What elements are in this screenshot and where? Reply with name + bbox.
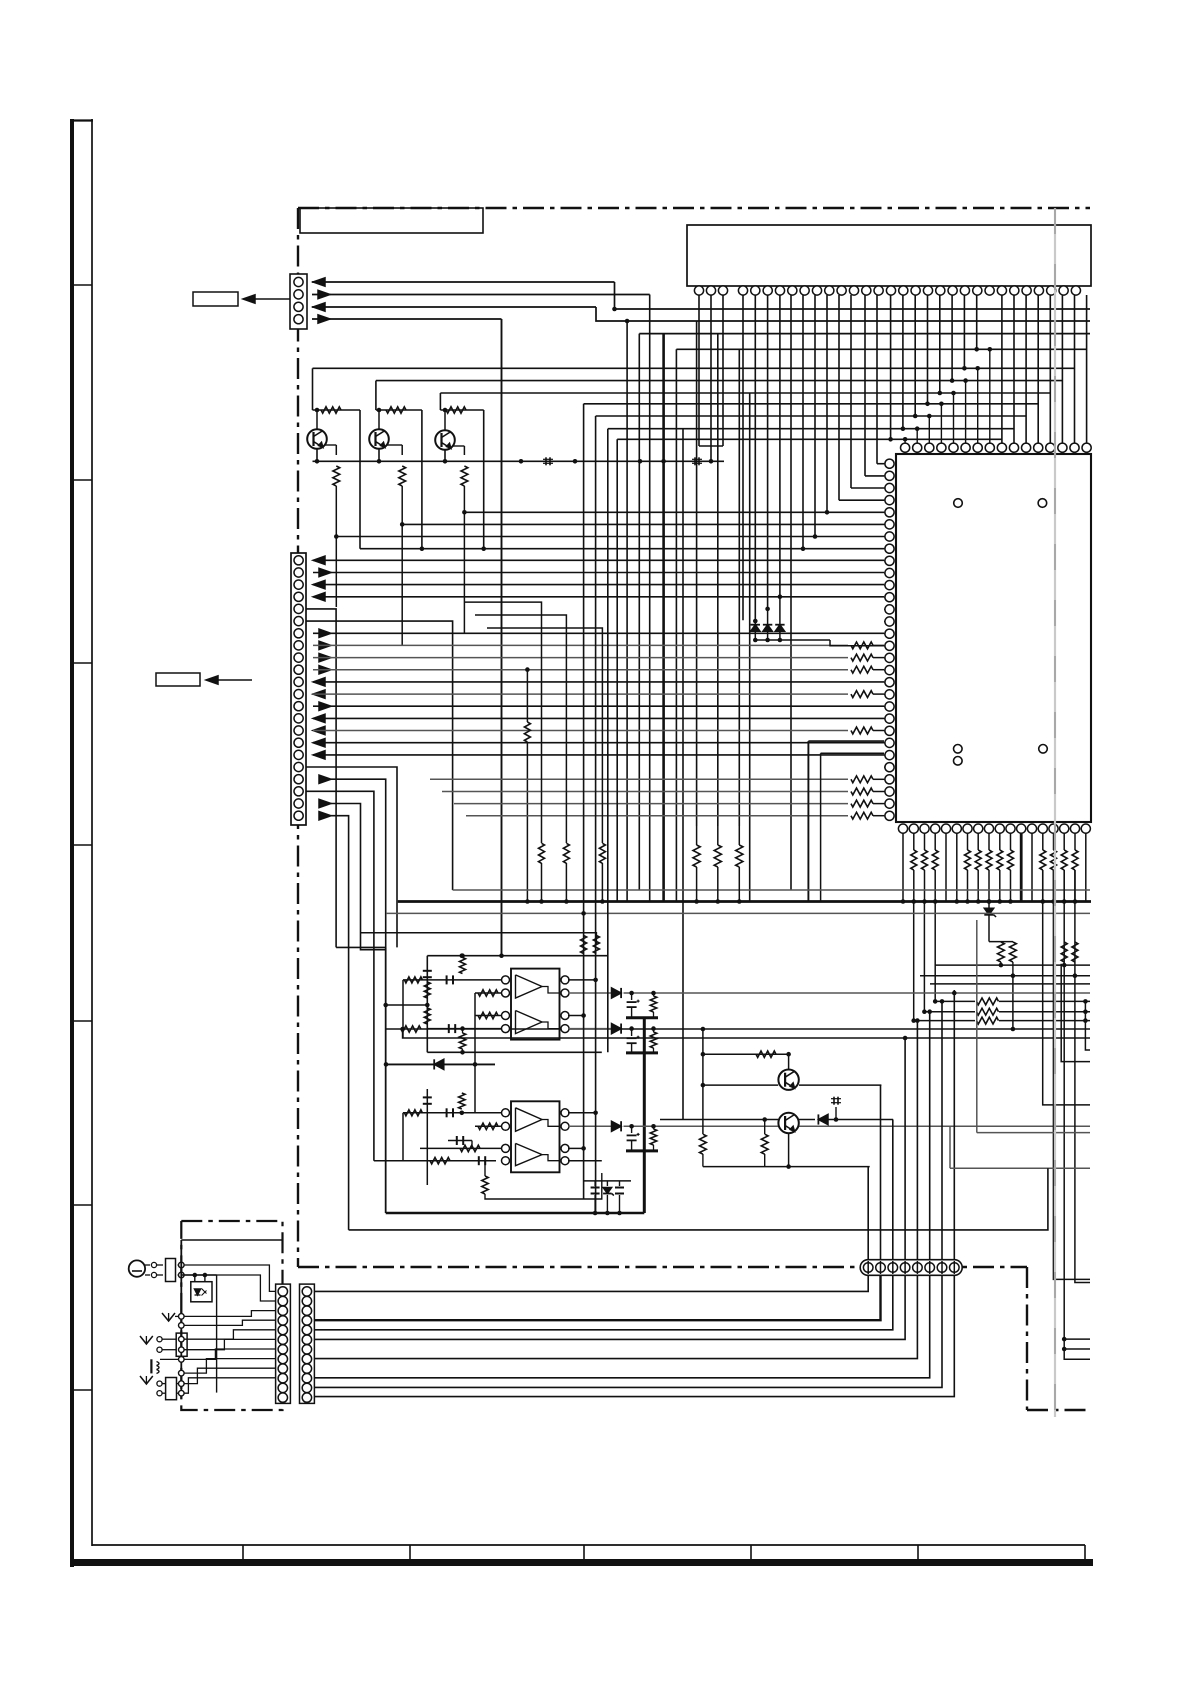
U3 input network wires — [403, 1112, 502, 1114]
resistor R31 — [1010, 942, 1017, 962]
wire vertical x1042 — [1043, 870, 1090, 1105]
IC bottom pin wires and resistors — [902, 833, 904, 902]
signal wire y932 — [361, 933, 597, 945]
label box B — [156, 673, 200, 686]
input unit outline dash-dot — [181, 1221, 282, 1410]
wire drop x483 — [483, 410, 485, 549]
microphone jack — [129, 1260, 145, 1276]
label box A — [193, 292, 238, 306]
gray signal wire y1168 — [950, 1167, 1090, 1169]
long wire vertical x663 (heavy) — [662, 334, 665, 902]
pin continuation wires below bus — [913, 902, 915, 1021]
op-amp U3 body — [511, 1101, 560, 1172]
wire CN1-1 — [312, 281, 615, 283]
op-amp U2 amp A triangle — [516, 975, 543, 998]
wire drop x360 — [359, 410, 361, 549]
arrow to label box B — [208, 679, 252, 681]
connector CN3 row wires — [313, 556, 325, 564]
wire rail y1160 left — [374, 1160, 400, 1162]
wire ladder row y321 — [596, 307, 1090, 321]
IC U1 left pins — [885, 459, 894, 468]
frame grid tick marks left — [74, 284, 92, 286]
heavy gnd segment — [626, 1016, 658, 1019]
IC U1 index holes — [954, 499, 963, 508]
nested corner wires to IC left pins (top) — [839, 499, 884, 501]
wire with resistor to IC pin row — [313, 644, 848, 646]
long wire vertical x501 — [501, 319, 503, 956]
wire ladder rows y349-y439 — [676, 348, 1086, 350]
resistor R21 — [459, 1033, 465, 1049]
filter component FL1 — [166, 1259, 176, 1282]
wire bundle centre verticals — [742, 295, 744, 620]
arrow to label box A — [246, 298, 290, 300]
wire Q4 emitter to bundle — [799, 1084, 881, 1086]
gray signal wire y1132 — [977, 1132, 1090, 1134]
capacitor C22 (electrolytic) — [631, 993, 633, 1000]
resistor R23 — [650, 1032, 656, 1048]
op-amp U3 output pins — [561, 1109, 569, 1117]
IC top pin stub wires — [904, 439, 906, 443]
long wire vertical x649 — [649, 295, 651, 902]
wire drop x421 — [421, 410, 423, 549]
resistor R32 — [1061, 942, 1067, 962]
resistor group mid y853 — [539, 843, 545, 863]
resistor R14 (emitter) — [333, 466, 340, 486]
heavy vertical bus x644 — [643, 1018, 646, 1213]
filter FL2 — [176, 1333, 187, 1356]
diode D6 left — [386, 1063, 495, 1065]
wire feed Q4 — [703, 1053, 789, 1055]
diode D4 — [612, 988, 622, 998]
op-amp section loop wires — [385, 947, 387, 1213]
heavy gnd segment 2 — [626, 1051, 658, 1054]
jack symbol J1 — [162, 1313, 175, 1321]
thick corner wire to IC pin — [808, 740, 884, 742]
wire corner right y1062 — [1061, 964, 1090, 1062]
transistor Q2 feed wire — [375, 381, 377, 410]
wire ladder row y309 — [615, 282, 1091, 309]
wire zener to resistor pair — [989, 941, 1013, 943]
page frame inner border line — [91, 119, 93, 1546]
heavy supply bus wire y902 — [398, 900, 1091, 903]
resistor R33 — [1072, 942, 1078, 962]
op-amp U2 input pins — [502, 976, 510, 984]
transistor Q1 — [307, 429, 327, 449]
top connector CN2 body — [687, 225, 1091, 286]
gray signal wire y913 — [386, 912, 584, 914]
resistor R22 — [650, 996, 656, 1012]
wire vertical x1064 — [1064, 870, 1090, 1359]
bundle verticals to resistor group — [696, 321, 698, 826]
connector CN4 (8-pin inline) — [860, 1260, 962, 1276]
resistor R19 on drop x527 — [526, 670, 528, 722]
capacitor C23 (electrolytic) — [631, 1029, 633, 1036]
diode D8 — [799, 1119, 815, 1121]
capacitor C20 — [423, 970, 432, 972]
resistor R20 — [460, 958, 466, 974]
wire CN1-3 — [312, 306, 596, 308]
capacitor C25 — [448, 1140, 472, 1142]
resistor block R34-R36 (horizontal) — [935, 1000, 975, 1002]
IC U1 top pins — [901, 443, 910, 452]
wire row y984 — [930, 983, 1090, 985]
gray signal wire y890 — [453, 889, 1090, 891]
page frame outer border — [70, 119, 74, 1567]
transistor Q3 — [435, 430, 455, 450]
wire vertical x1053 — [1053, 870, 1090, 1279]
long wire vertical x683 — [682, 429, 684, 1120]
connector CN3 body (22-pin) — [291, 553, 306, 825]
resistor R26 — [650, 1129, 656, 1145]
op-amp U3 amp A triangle — [516, 1108, 543, 1132]
resistor R16 (emitter) — [461, 466, 468, 486]
diode D7 — [612, 1121, 622, 1131]
long wire vertical x627 — [626, 321, 628, 902]
IC left pin resistor rows (bottom group) — [430, 778, 848, 780]
wire Q5 base — [660, 1119, 778, 1121]
long wire vertical x749 — [749, 393, 751, 902]
board outline dash-dot top — [298, 207, 1090, 209]
heavy gnd segment 3 — [626, 1149, 658, 1152]
op-amp section long verticals — [583, 404, 585, 1199]
long wire row y1038 — [403, 1029, 1090, 1038]
diode D5 — [612, 1024, 622, 1034]
wire row y965 — [935, 964, 1090, 966]
resistor R30 — [998, 942, 1005, 962]
op-amp U3 input pins — [502, 1109, 510, 1117]
jack symbol J2 — [140, 1336, 153, 1344]
long wire vertical x676 — [675, 349, 677, 901]
jack symbol J3 — [140, 1376, 153, 1384]
IC top pin feed verticals — [1001, 295, 1003, 443]
emitter rail wire — [313, 460, 725, 462]
resistor R25 — [482, 1176, 488, 1194]
U3 output wires — [568, 1112, 596, 1114]
long wire row y1029 — [386, 1028, 1090, 1030]
wire CN1-2 — [312, 294, 650, 296]
ferrite bead FB2 — [694, 457, 696, 465]
U2 input network wires — [403, 979, 502, 981]
resistor R28 — [761, 1134, 768, 1154]
op-amp U2 body — [511, 969, 560, 1040]
transistor Q2 — [369, 429, 389, 449]
photo-coupler PC1 — [191, 1282, 212, 1302]
transistor Q1 feed wire — [312, 368, 314, 410]
wire CN1-4 — [312, 318, 502, 320]
transistor Q4 — [778, 1070, 798, 1090]
board outline dash-dot left — [297, 208, 299, 1267]
wire row y976 — [920, 975, 1090, 977]
wire ladder row y333 — [639, 333, 1090, 335]
CN2 left pin wires — [698, 295, 700, 446]
corner wire lower-left — [336, 946, 386, 948]
ferrite bead FB1 — [545, 457, 547, 465]
connector CN1 (4-pin) — [290, 274, 307, 329]
wire Q5 emitter — [788, 1133, 790, 1166]
sheet reference line (gray dash-dot) — [1054, 208, 1056, 1417]
op-amp U3 amp B triangle — [516, 1143, 543, 1165]
resistor R24 — [459, 1093, 465, 1109]
input unit inner top wire — [181, 1239, 282, 1241]
zener diode ZD1 — [988, 902, 990, 942]
bus label box top-left — [300, 208, 483, 233]
wire vertical x403 upper — [402, 980, 404, 1038]
wire rail y1166 — [703, 1166, 870, 1168]
filter FL3 — [166, 1378, 177, 1400]
resistor R15 (emitter) — [399, 466, 406, 486]
loop wire y1230 — [349, 1168, 1048, 1230]
transistor Q5 — [778, 1113, 798, 1133]
IC U1 bottom pins — [898, 824, 907, 833]
op-amp U2 amp B triangle — [516, 1011, 543, 1034]
resistor R20c — [424, 1008, 430, 1024]
transistor Q3 feed wire — [439, 393, 441, 410]
unit left bus — [180, 1240, 182, 1399]
connector CN5 (12-pin) — [276, 1284, 291, 1403]
connector CN6 (12-pin) — [300, 1284, 315, 1403]
bottom caps and zener — [584, 1180, 631, 1182]
frame grid tick marks bottom — [242, 1545, 244, 1559]
unit wires to connector CN5 — [184, 1265, 276, 1291]
bundle tops joins — [903, 1036, 908, 1041]
op-amp U2 output pins — [561, 976, 569, 984]
board outline dash-dot bottom — [298, 1266, 1027, 1268]
wire row to IC pin y524 — [402, 523, 884, 525]
wire vertical x403 lower — [402, 1113, 404, 1161]
resistor group right y856 — [693, 845, 700, 867]
resistor pair above op-amps — [581, 936, 587, 954]
U2 output wires — [568, 979, 596, 981]
resistor R27 — [700, 1134, 707, 1154]
IC U1 body — [896, 454, 1091, 822]
wire vertical x1074 — [1075, 870, 1090, 1283]
wire row to IC pin y536 — [336, 536, 884, 538]
resistor R20b — [424, 982, 430, 998]
long wire vertical x639 — [638, 334, 640, 890]
wire pair right bottom — [1064, 1338, 1090, 1340]
CN2 staircase wires onto rows — [890, 295, 892, 439]
wire vertical x1085 — [1085, 1001, 1090, 1050]
wire row to IC pin y548 — [360, 548, 884, 550]
bottom bundle verticals — [867, 1167, 869, 1261]
capacitor C26 (electrolytic) — [631, 1126, 633, 1133]
capacitor C27 — [835, 1107, 837, 1120]
top connector CN2 pins — [694, 286, 703, 295]
capacitor C24 — [423, 1096, 432, 1098]
inductor L1 — [150, 1359, 152, 1373]
wire Q4 base — [703, 1084, 778, 1086]
wire row to IC pin y512 — [464, 511, 884, 513]
diode D3 — [751, 625, 760, 632]
